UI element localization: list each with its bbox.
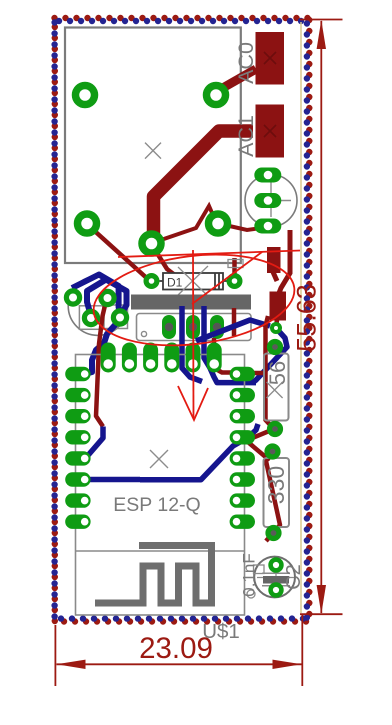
pad esp-r6 [230, 472, 255, 486]
svg-text:U$1: U$1 [202, 620, 240, 643]
pad esp-t5 [186, 343, 201, 373]
pad esp-t3 [143, 343, 158, 373]
jumper outline small [228, 260, 243, 268]
wire blue U2 vertical 2 [204, 306, 256, 383]
pad C2-1 [271, 560, 282, 571]
pad U2-2 [186, 315, 200, 339]
pad R2-1 [270, 342, 281, 353]
pad C1-3 [84, 311, 97, 324]
pad D1-cathode [229, 276, 240, 287]
wire stub pad B to via [276, 320, 277, 327]
wire stub D1 right pad up [232, 258, 237, 274]
svg-text:C2: C2 [283, 564, 305, 590]
wire maroon top row weave [214, 338, 250, 373]
pad U$2-1 [76, 86, 95, 105]
regulator VR1 outline circle [245, 175, 297, 227]
wire trace pad5 diag [152, 245, 180, 279]
capacitor C2 hatch [263, 576, 289, 584]
wire blue C1 d [85, 280, 127, 375]
dimension 23.09 horizontal [55, 614, 302, 686]
regulator VR1 cross [256, 183, 292, 218]
pad D1-anode [146, 276, 157, 287]
wire trace pad3 to D1 [88, 225, 150, 281]
pad C1-2 [101, 291, 114, 304]
pad esp-l7 [65, 493, 90, 507]
pad esp-l2 [65, 388, 90, 402]
svg-text:D1: D1 [167, 276, 183, 290]
pad esp-r1 [230, 367, 255, 381]
airwire vee [178, 386, 208, 420]
module U$2 origin cross [145, 143, 161, 159]
resistor R2 origin cross [267, 382, 283, 398]
svg-text:56: 56 [265, 361, 290, 385]
svg-text:AC0: AC0 [234, 42, 258, 84]
esp module U$1 origin cross [150, 450, 168, 468]
pad esp-r4 [230, 430, 255, 444]
wire maroon r3 feed [242, 437, 272, 459]
wire trace tent pad4 [155, 206, 268, 242]
wire maroon branch y373 [231, 371, 266, 376]
esp pads right column [230, 367, 255, 529]
via V1 [272, 324, 280, 332]
wire maroon C1 vertical [96, 299, 107, 427]
pad VR1-1 [254, 168, 281, 183]
svg-text:ESP 12-Q: ESP 12-Q [113, 494, 200, 516]
smd pad AC1 [256, 105, 285, 158]
capacitor C1 squares [79, 306, 103, 330]
wire blue U2 vertical 1 [182, 306, 202, 382]
pad esp-r7 [230, 493, 255, 507]
diode D1 body [160, 273, 228, 290]
wire trace AC0 to pad2 [220, 69, 256, 90]
pad esp-r2 [230, 388, 255, 402]
smd pad A right [267, 247, 281, 273]
module U$2 outline [65, 28, 241, 264]
pad esp-t6 [207, 343, 222, 373]
dimension extension line khaki [300, 22, 302, 613]
wire maroon mid vertical through R2 [266, 316, 274, 428]
pad esp-l1 [65, 367, 90, 381]
pad esp-r8 [230, 515, 255, 529]
svg-text:55.63: 55.63 [291, 284, 321, 352]
esp pads left column [65, 367, 90, 529]
pad C1-1 [66, 291, 79, 304]
board outline dotted border red [55, 18, 310, 622]
regulator U2 tab bar [131, 295, 251, 310]
regulator U2 pin1 mark [141, 331, 146, 336]
svg-text:0.1nF: 0.1nF [240, 553, 259, 596]
pad esp-l3 [65, 409, 90, 423]
wire blue left short [86, 477, 140, 483]
esp module U$1 outline [76, 355, 245, 616]
wire trace AC1 to pad5 thick [154, 131, 254, 243]
wire blue via branch [196, 320, 270, 341]
pad U$2-4 [209, 214, 228, 233]
wire maroon U2 down [232, 308, 237, 336]
airwire ellipse [88, 244, 299, 356]
wire stub pad A [273, 272, 277, 281]
wire blue r2 approach [252, 328, 287, 383]
airwire vertical [192, 250, 195, 419]
svg-text:330: 330 [263, 466, 289, 504]
pad R3-2 [268, 528, 279, 539]
pad U$2-5 [142, 234, 161, 253]
pad U$2-3 [78, 214, 97, 233]
airwire line 2 [192, 252, 262, 304]
pad esp-r5 [230, 451, 255, 465]
pad esp-l5 [65, 451, 90, 465]
wire maroon r3 internal [266, 452, 280, 541]
esp module U$1 divider [76, 550, 245, 552]
pad C1-4 [113, 311, 126, 324]
pad R3-1 [267, 446, 278, 457]
dimension 55.63 vertical [300, 20, 343, 615]
regulator U2 outline [137, 314, 252, 341]
wire blue col l5 link [87, 427, 103, 457]
pad esp-l4 [65, 430, 90, 444]
svg-text:AC1: AC1 [234, 115, 258, 157]
pad esp-t2 [122, 343, 137, 373]
smd pad B right [270, 292, 287, 321]
pad R2-2 [270, 424, 281, 435]
capacitor C2 outline [254, 557, 295, 598]
airwire line 1 [118, 251, 300, 258]
capacitor C2 cross [257, 558, 294, 596]
board outline dotted border blue [55, 21, 307, 619]
pad VR1-3 [254, 219, 281, 234]
smd pad AC0 [256, 32, 285, 85]
resistor R2 body [264, 354, 289, 421]
resistor R3 body [264, 458, 290, 527]
pad U$2-2 [207, 86, 226, 105]
pad U2-1 [162, 315, 176, 339]
diode D1 origin cross [178, 266, 208, 296]
pad VR1-2 [254, 193, 281, 208]
pad esp-t4 [164, 343, 179, 373]
pad esp-t1 [101, 343, 116, 373]
esp antenna meander [95, 546, 212, 604]
pad esp-l8 [65, 515, 90, 529]
wire blue C1 a [72, 275, 120, 315]
wire trace via vertical right [279, 230, 290, 293]
pad C2-2 [271, 585, 282, 596]
pad U2-3 [210, 315, 224, 339]
capacitor C2 silk marks [254, 565, 265, 574]
capacitor C1 outline circle [68, 276, 127, 335]
wire maroon cross arm B [236, 429, 274, 441]
pad esp-r3 [230, 409, 255, 423]
esp pads top row [101, 343, 222, 373]
wire blue long diag [140, 424, 258, 480]
pad esp-l6 [65, 472, 90, 486]
